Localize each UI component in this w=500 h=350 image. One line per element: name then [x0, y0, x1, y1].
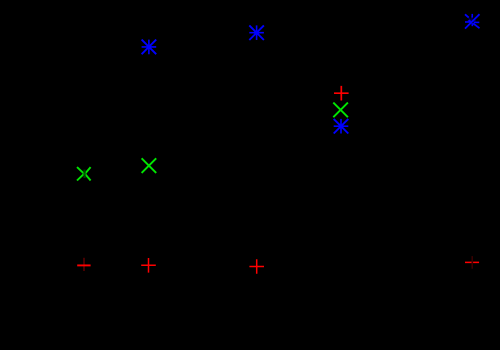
green cross data point G2 (149,166) [142, 158, 157, 173]
blue star key sample B4 (341,126) [334, 119, 349, 134]
blue star data point B2 (257,33) [249, 25, 264, 40]
red plus data point R3 (257,267) [249, 259, 264, 274]
red marker R4 (472,262) bright dashes [465, 261, 479, 263]
red marker R4 (472,262) dim plus [465, 256, 479, 269]
red plus key sample R5 (341,93) [334, 86, 349, 101]
red marker R1 (84,265) bright horizontal bar [77, 264, 90, 266]
blue star cluster B3 bright strokes (472,21) [465, 14, 480, 29]
red plus data point R2 (148,265) [141, 258, 156, 273]
green cross key sample G3 (341,110) [333, 103, 348, 118]
red marker R1 (84,265) dim vertical [83, 258, 85, 271]
green cross data point G1 (84,174) with dim pinch [77, 167, 91, 180]
blue star cluster B3 dim underlay (472,21) [468, 16, 477, 26]
blue star data point B1 (149,47) [142, 40, 157, 55]
